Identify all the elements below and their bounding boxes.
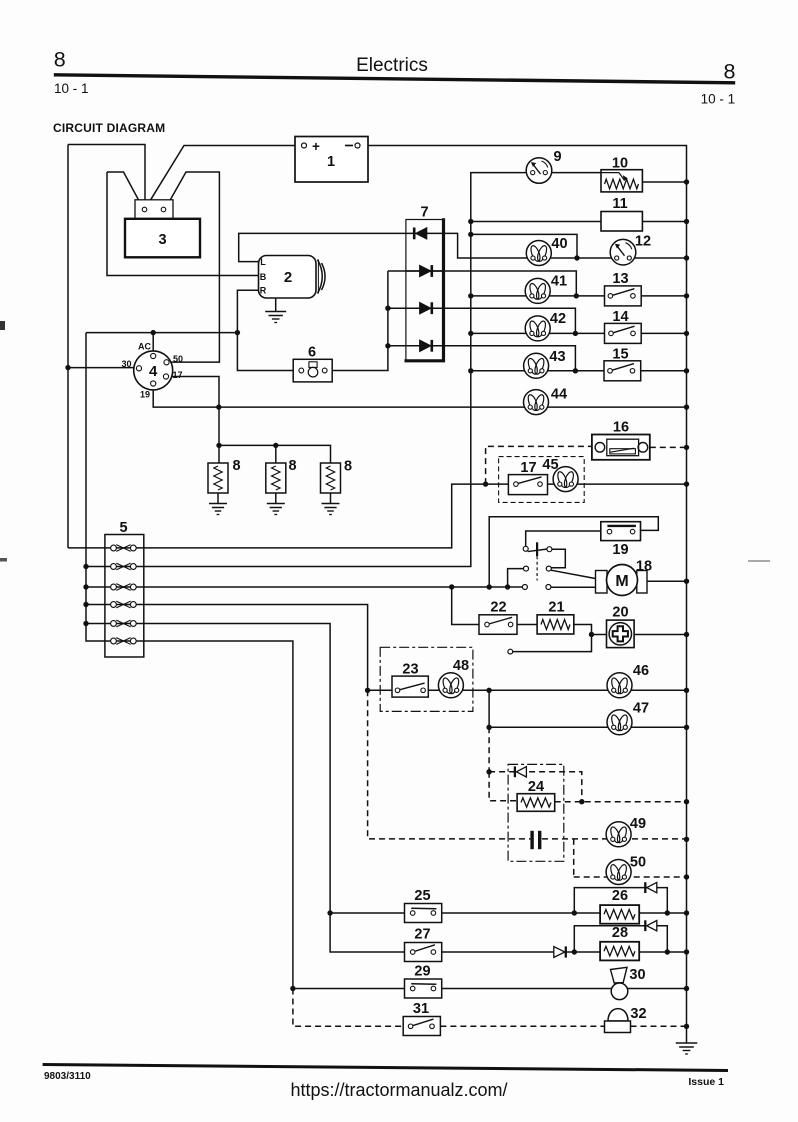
svg-text:49: 49 [630, 816, 646, 832]
svg-text:25: 25 [414, 888, 430, 904]
svg-text:R: R [260, 286, 267, 296]
svg-text:21: 21 [548, 600, 564, 616]
svg-text:27: 27 [414, 927, 430, 943]
svg-text:5: 5 [119, 520, 127, 536]
svg-text:2: 2 [284, 269, 292, 286]
svg-text:32: 32 [630, 1006, 646, 1022]
svg-text:45: 45 [542, 457, 558, 473]
svg-text:6: 6 [308, 344, 316, 360]
svg-text:AC: AC [138, 341, 151, 351]
svg-text:CIRCUIT DIAGRAM: CIRCUIT DIAGRAM [53, 121, 165, 135]
svg-text:29: 29 [414, 964, 430, 980]
svg-text:M: M [615, 573, 628, 590]
svg-text:46: 46 [633, 663, 649, 679]
svg-text:12: 12 [635, 234, 651, 250]
svg-text:50: 50 [630, 855, 646, 871]
svg-text:11: 11 [612, 196, 627, 212]
svg-text:31: 31 [413, 1001, 429, 1017]
svg-text:3: 3 [158, 232, 166, 248]
svg-text:22: 22 [490, 600, 506, 616]
svg-text:B: B [260, 272, 267, 282]
svg-text:9: 9 [553, 149, 561, 165]
svg-text:https://tractormanualz.com/: https://tractormanualz.com/ [290, 1080, 507, 1100]
svg-text:17: 17 [520, 460, 536, 476]
svg-text:4: 4 [149, 363, 158, 380]
svg-text:43: 43 [549, 349, 565, 365]
svg-text:42: 42 [550, 311, 566, 327]
svg-text:8: 8 [232, 458, 240, 474]
svg-text:10 - 1: 10 - 1 [54, 81, 89, 96]
svg-text:15: 15 [612, 347, 628, 363]
svg-text:24: 24 [528, 779, 544, 795]
svg-text:9803/3110: 9803/3110 [44, 1071, 91, 1082]
svg-text:30: 30 [629, 967, 645, 983]
svg-text:23: 23 [402, 662, 418, 678]
svg-text:17: 17 [172, 370, 182, 380]
svg-text:44: 44 [551, 387, 567, 403]
svg-text:13: 13 [612, 271, 628, 287]
svg-text:L: L [260, 257, 266, 267]
svg-text:8: 8 [344, 459, 352, 475]
svg-text:40: 40 [551, 236, 567, 252]
svg-text:10 - 1: 10 - 1 [701, 92, 736, 107]
svg-text:50: 50 [173, 354, 183, 364]
svg-text:8: 8 [54, 48, 66, 72]
svg-text:1: 1 [327, 154, 335, 170]
svg-text:47: 47 [633, 701, 649, 717]
svg-text:14: 14 [612, 309, 628, 325]
svg-text:41: 41 [551, 274, 567, 290]
svg-text:18: 18 [636, 559, 652, 575]
svg-text:16: 16 [613, 420, 629, 436]
svg-text:19: 19 [612, 542, 628, 558]
svg-text:Issue 1: Issue 1 [688, 1076, 724, 1088]
svg-text:48: 48 [453, 658, 469, 674]
svg-text:20: 20 [612, 605, 628, 621]
svg-text:Electrics: Electrics [356, 55, 428, 76]
svg-text:19: 19 [140, 389, 150, 399]
svg-text:10: 10 [612, 156, 628, 172]
svg-text:7: 7 [420, 205, 428, 221]
svg-text:30: 30 [121, 359, 131, 369]
svg-text:26: 26 [612, 888, 628, 904]
svg-text:8: 8 [288, 458, 296, 474]
svg-text:8: 8 [724, 60, 736, 84]
svg-text:28: 28 [612, 925, 628, 941]
svg-text:+: + [312, 139, 320, 154]
